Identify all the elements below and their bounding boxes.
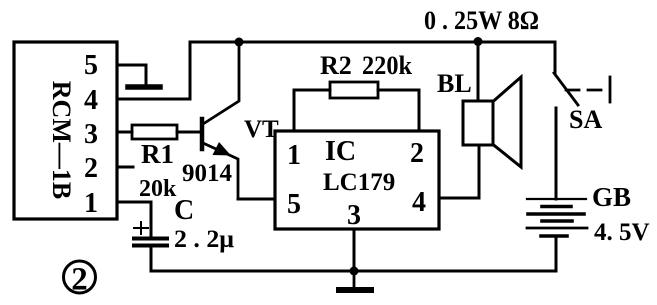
resistor R2 xyxy=(330,82,378,98)
node junction collector-rail xyxy=(235,38,244,47)
resistor R1 xyxy=(132,125,177,139)
switch SA lever xyxy=(554,73,578,105)
speaker BL driver box xyxy=(463,101,493,145)
svg-text:R2: R2 xyxy=(320,51,352,80)
transistor VT emitter arrowhead xyxy=(213,142,232,156)
svg-text:2 . 2μ: 2 . 2μ xyxy=(174,226,234,253)
wire battery to bottom rail xyxy=(555,236,558,271)
switch SA button bar xyxy=(609,77,612,102)
svg-text:LC179: LC179 xyxy=(323,169,395,196)
wire pin1 to capacitor xyxy=(117,202,151,236)
svg-text:0 . 25W 8Ω: 0 . 25W 8Ω xyxy=(424,6,539,35)
svg-text:BL: BL xyxy=(437,69,472,98)
svg-text:R1: R1 xyxy=(141,139,174,169)
svg-text:2: 2 xyxy=(410,138,424,169)
svg-text:4. 5V: 4. 5V xyxy=(594,219,650,246)
speaker BL cone xyxy=(493,77,521,167)
ground at pin5 xyxy=(128,84,160,90)
wire R1 to base xyxy=(177,131,200,134)
capacitor C plates xyxy=(134,237,167,241)
wire IC pin1 riser to R2 xyxy=(294,90,330,131)
IC U1 LC179 box xyxy=(275,131,439,229)
capacitor C plus sign xyxy=(134,222,148,234)
wire pin3 to R1 xyxy=(117,131,132,134)
node junction pin3-rail xyxy=(350,267,359,276)
transistor VT emitter lead with arrow xyxy=(203,143,238,199)
wire capacitor to bottom rail xyxy=(150,247,153,271)
wire pin2 stub xyxy=(117,166,133,169)
svg-text:9014: 9014 xyxy=(182,160,233,187)
wire switch to battery xyxy=(555,108,558,199)
svg-text:4: 4 xyxy=(412,187,426,218)
wire IC pin4 to speaker xyxy=(439,145,479,198)
svg-text:SA: SA xyxy=(569,105,602,134)
wire R2 to IC pin2 riser xyxy=(378,90,419,131)
svg-text:GB: GB xyxy=(592,182,631,212)
svg-text:1: 1 xyxy=(287,140,301,171)
svg-text:20k: 20k xyxy=(139,176,177,202)
node junction speaker-rail xyxy=(474,37,483,46)
wire bottom rail xyxy=(151,270,556,273)
svg-text:1: 1 xyxy=(84,188,98,219)
svg-text:5: 5 xyxy=(287,189,301,220)
wire top rail to speaker xyxy=(477,42,480,101)
wire emitter to IC pin5 xyxy=(238,198,275,201)
svg-text:3: 3 xyxy=(347,200,361,231)
svg-text:RCM—1B: RCM—1B xyxy=(47,81,76,199)
svg-text:5: 5 xyxy=(84,50,98,81)
wire pin5 to ground xyxy=(117,65,146,84)
svg-text:C: C xyxy=(174,195,194,226)
transistor VT base bar xyxy=(200,119,205,149)
svg-text:4: 4 xyxy=(84,85,98,116)
battery GB plates xyxy=(527,198,586,200)
wire pin4 to top rail xyxy=(117,42,190,99)
wire top rail to switch xyxy=(554,42,557,73)
wire top rail xyxy=(190,41,555,44)
svg-text:2: 2 xyxy=(71,262,88,298)
svg-text:220k: 220k xyxy=(362,51,412,80)
svg-text:IC: IC xyxy=(325,136,356,167)
transistor VT collector lead xyxy=(203,42,239,124)
switch SA actuator dashed link xyxy=(566,89,607,92)
receiver module U2 RCM-1B box xyxy=(14,42,117,219)
svg-text:2: 2 xyxy=(84,153,98,184)
svg-text:3: 3 xyxy=(84,119,98,150)
ground at bottom rail xyxy=(353,271,356,288)
wire IC pin3 to bottom rail xyxy=(353,229,356,271)
figure number 2 circle xyxy=(64,261,96,293)
